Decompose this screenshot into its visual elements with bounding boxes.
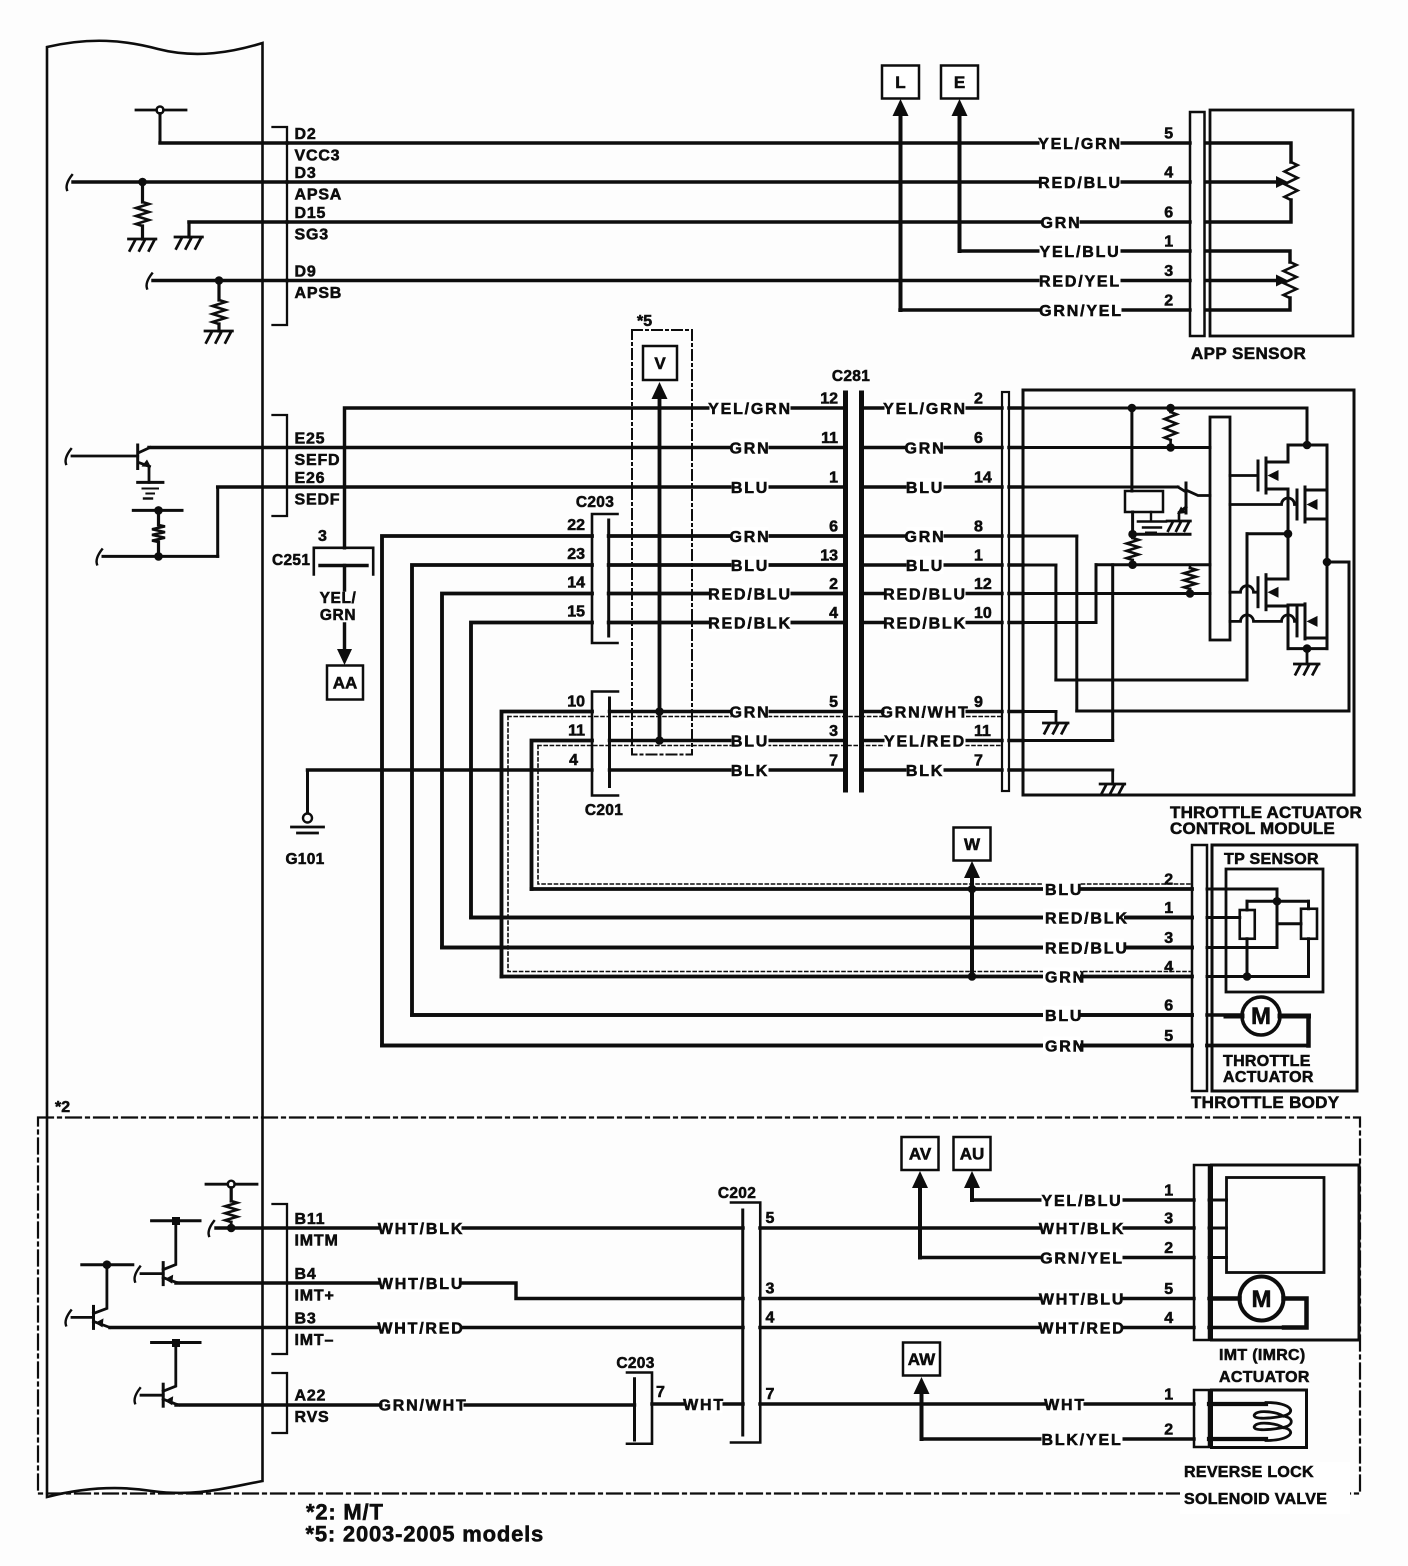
svg-text:RED/BLK: RED/BLK xyxy=(1045,910,1129,927)
svg-text:GRN: GRN xyxy=(1041,215,1082,232)
svg-text:REVERSE LOCK: REVERSE LOCK xyxy=(1184,1464,1314,1481)
svg-text:E26: E26 xyxy=(295,470,326,487)
svg-text:BLK/YEL: BLK/YEL xyxy=(1041,1432,1122,1449)
svg-text:WHT: WHT xyxy=(683,1397,725,1414)
svg-text:L: L xyxy=(895,73,905,92)
svg-text:ACTUATOR: ACTUATOR xyxy=(1223,1069,1314,1086)
svg-text:IMTM: IMTM xyxy=(295,1233,339,1250)
svg-text:M: M xyxy=(1252,1286,1272,1313)
svg-text:1: 1 xyxy=(1164,900,1173,917)
svg-text:GRN/WHT: GRN/WHT xyxy=(378,1397,467,1414)
svg-text:C203: C203 xyxy=(616,1355,654,1372)
svg-text:GRN: GRN xyxy=(320,607,356,624)
svg-text:3: 3 xyxy=(318,528,327,545)
svg-text:4: 4 xyxy=(569,752,578,769)
svg-text:VCC3: VCC3 xyxy=(295,148,341,165)
svg-text:AV: AV xyxy=(909,1145,932,1164)
svg-text:22: 22 xyxy=(567,517,585,534)
svg-text:C203: C203 xyxy=(576,494,614,511)
svg-text:12: 12 xyxy=(820,391,838,408)
svg-text:GRN: GRN xyxy=(730,704,771,721)
svg-text:SEDF: SEDF xyxy=(295,492,341,509)
svg-text:BLK: BLK xyxy=(731,763,769,780)
svg-text:C251: C251 xyxy=(272,552,310,569)
svg-text:ACTUATOR: ACTUATOR xyxy=(1219,1369,1310,1386)
svg-text:C202: C202 xyxy=(718,1185,756,1202)
svg-text:BLU: BLU xyxy=(731,558,769,575)
svg-text:2: 2 xyxy=(1164,1240,1173,1257)
svg-text:GRN: GRN xyxy=(1045,1038,1086,1055)
svg-text:THROTTLE BODY: THROTTLE BODY xyxy=(1191,1093,1340,1112)
svg-text:APSB: APSB xyxy=(295,285,343,302)
svg-text:A22: A22 xyxy=(295,1388,327,1405)
svg-text:YEL/BLU: YEL/BLU xyxy=(1039,244,1120,261)
svg-text:2: 2 xyxy=(829,576,838,593)
svg-text:*5: 2003-2005 models: *5: 2003-2005 models xyxy=(306,1522,545,1547)
svg-text:10: 10 xyxy=(567,694,585,711)
svg-text:D2: D2 xyxy=(295,126,317,143)
svg-text:9: 9 xyxy=(974,694,983,711)
svg-text:7: 7 xyxy=(656,1384,665,1401)
svg-text:GRN: GRN xyxy=(905,529,946,546)
svg-text:1: 1 xyxy=(1164,234,1173,251)
svg-text:1: 1 xyxy=(974,548,983,565)
svg-text:YEL/BLU: YEL/BLU xyxy=(1041,1193,1122,1210)
svg-text:8: 8 xyxy=(974,519,983,536)
svg-text:BLK: BLK xyxy=(906,763,944,780)
svg-text:3: 3 xyxy=(1164,1211,1173,1228)
svg-text:AA: AA xyxy=(333,674,358,693)
svg-text:APP SENSOR: APP SENSOR xyxy=(1191,344,1306,363)
svg-text:RED/BLU: RED/BLU xyxy=(1045,940,1129,957)
svg-text:THROTTLE: THROTTLE xyxy=(1223,1053,1311,1070)
svg-text:E25: E25 xyxy=(295,431,326,448)
svg-text:2: 2 xyxy=(1164,872,1173,889)
svg-text:2: 2 xyxy=(1164,1422,1173,1439)
svg-text:YEL/GRN: YEL/GRN xyxy=(1038,136,1122,153)
svg-text:RED/YEL: RED/YEL xyxy=(1039,273,1121,290)
svg-text:IMT+: IMT+ xyxy=(295,1288,335,1305)
svg-text:RED/BLU: RED/BLU xyxy=(883,586,967,603)
svg-text:RED/BLU: RED/BLU xyxy=(708,586,792,603)
svg-text:3: 3 xyxy=(1164,263,1173,280)
svg-text:7: 7 xyxy=(766,1386,775,1403)
svg-text:AW: AW xyxy=(908,1350,936,1369)
svg-text:WHT/BLK: WHT/BLK xyxy=(378,1221,464,1238)
svg-text:YEL/GRN: YEL/GRN xyxy=(708,401,792,418)
svg-text:WHT/RED: WHT/RED xyxy=(1038,1320,1125,1337)
svg-text:1: 1 xyxy=(1164,1183,1173,1200)
svg-text:GRN: GRN xyxy=(1045,969,1086,986)
svg-text:*5: *5 xyxy=(637,313,652,330)
svg-text:C201: C201 xyxy=(585,802,623,819)
svg-text:5: 5 xyxy=(829,694,838,711)
svg-text:RVS: RVS xyxy=(295,1409,330,1426)
svg-text:7: 7 xyxy=(829,753,838,770)
svg-text:WHT/BLU: WHT/BLU xyxy=(378,1276,464,1293)
svg-text:GRN: GRN xyxy=(905,440,946,457)
svg-text:B11: B11 xyxy=(295,1211,326,1228)
svg-text:RED/BLU: RED/BLU xyxy=(1038,175,1122,192)
svg-text:12: 12 xyxy=(974,576,992,593)
svg-text:WHT/RED: WHT/RED xyxy=(377,1320,464,1337)
svg-text:14: 14 xyxy=(974,470,992,487)
svg-text:SEFD: SEFD xyxy=(295,452,341,469)
svg-text:E: E xyxy=(954,73,965,92)
svg-text:GRN/YEL: GRN/YEL xyxy=(1039,303,1123,320)
svg-text:1: 1 xyxy=(829,470,838,487)
svg-text:BLU: BLU xyxy=(906,558,944,575)
svg-text:7: 7 xyxy=(974,753,983,770)
svg-text:W: W xyxy=(964,835,981,854)
svg-text:4: 4 xyxy=(1164,1310,1173,1327)
svg-text:B3: B3 xyxy=(295,1311,317,1328)
svg-text:10: 10 xyxy=(974,605,992,622)
svg-text:3: 3 xyxy=(829,723,838,740)
svg-text:BLU: BLU xyxy=(731,480,769,497)
svg-text:13: 13 xyxy=(820,548,838,565)
svg-text:B4: B4 xyxy=(295,1266,317,1283)
svg-text:1: 1 xyxy=(1164,1387,1173,1404)
svg-text:D3: D3 xyxy=(295,165,317,182)
svg-text:11: 11 xyxy=(568,723,585,740)
svg-text:IMT–: IMT– xyxy=(295,1332,335,1349)
svg-text:6: 6 xyxy=(829,519,838,536)
svg-text:YEL/: YEL/ xyxy=(320,590,357,607)
svg-text:IMT (IMRC): IMT (IMRC) xyxy=(1219,1347,1306,1364)
svg-text:BLU: BLU xyxy=(1045,882,1083,899)
svg-text:WHT: WHT xyxy=(1044,1397,1086,1414)
svg-text:11: 11 xyxy=(821,430,838,447)
svg-text:2: 2 xyxy=(974,391,983,408)
svg-text:D15: D15 xyxy=(295,205,327,222)
svg-text:BLU: BLU xyxy=(731,733,769,750)
svg-text:D9: D9 xyxy=(295,264,317,281)
svg-text:5: 5 xyxy=(1164,126,1173,143)
svg-text:TP SENSOR: TP SENSOR xyxy=(1224,851,1319,868)
svg-text:4: 4 xyxy=(1164,959,1173,976)
svg-text:YEL/GRN: YEL/GRN xyxy=(883,401,967,418)
svg-text:3: 3 xyxy=(1164,930,1173,947)
svg-text:RED/BLK: RED/BLK xyxy=(708,615,792,632)
svg-text:GRN: GRN xyxy=(730,529,771,546)
svg-text:23: 23 xyxy=(567,546,585,563)
svg-text:APSA: APSA xyxy=(295,187,343,204)
svg-text:M: M xyxy=(1251,1003,1271,1030)
svg-text:RED/BLK: RED/BLK xyxy=(883,615,967,632)
svg-text:2: 2 xyxy=(1164,293,1173,310)
svg-text:4: 4 xyxy=(829,605,838,622)
svg-text:G101: G101 xyxy=(285,851,324,868)
svg-text:5: 5 xyxy=(1164,1281,1173,1298)
svg-text:V: V xyxy=(654,354,666,373)
svg-text:6: 6 xyxy=(1164,205,1173,222)
svg-text:6: 6 xyxy=(974,430,983,447)
svg-text:4: 4 xyxy=(766,1310,775,1327)
svg-text:5: 5 xyxy=(766,1210,775,1227)
svg-text:15: 15 xyxy=(567,604,585,621)
svg-text:BLU: BLU xyxy=(906,480,944,497)
svg-text:4: 4 xyxy=(1164,165,1173,182)
svg-text:SOLENOID VALVE: SOLENOID VALVE xyxy=(1184,1491,1327,1508)
svg-text:GRN: GRN xyxy=(730,440,771,457)
svg-text:YEL/RED: YEL/RED xyxy=(884,733,966,750)
svg-text:WHT/BLU: WHT/BLU xyxy=(1039,1291,1125,1308)
svg-text:GRN/WHT: GRN/WHT xyxy=(880,704,969,721)
svg-text:6: 6 xyxy=(1164,998,1173,1015)
svg-text:11: 11 xyxy=(974,723,991,740)
svg-text:CONTROL MODULE: CONTROL MODULE xyxy=(1170,819,1335,838)
svg-text:AU: AU xyxy=(960,1145,985,1164)
svg-text:SG3: SG3 xyxy=(295,227,329,244)
svg-text:C281: C281 xyxy=(832,368,870,385)
svg-text:*2: *2 xyxy=(55,1099,70,1116)
svg-text:GRN/YEL: GRN/YEL xyxy=(1040,1250,1124,1267)
svg-text:5: 5 xyxy=(1164,1028,1173,1045)
svg-text:BLU: BLU xyxy=(1045,1008,1083,1025)
svg-text:WHT/BLK: WHT/BLK xyxy=(1039,1221,1125,1238)
svg-text:3: 3 xyxy=(766,1281,775,1298)
svg-text:14: 14 xyxy=(567,575,585,592)
